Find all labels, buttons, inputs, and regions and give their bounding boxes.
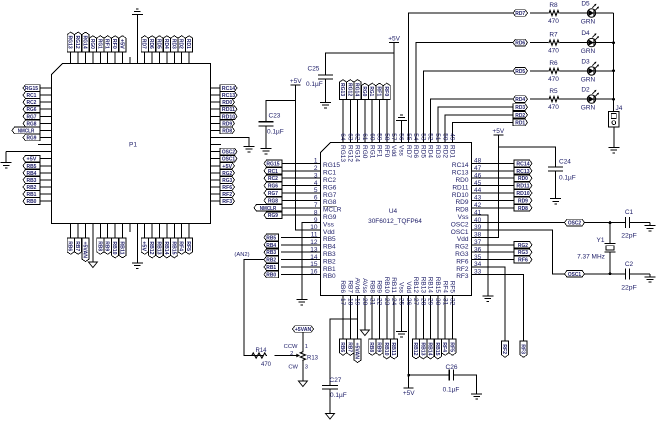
wire P1 bottom pin RF5: [188, 224, 190, 239]
wire P1 right pin +5V: [211, 165, 221, 167]
svg-text:RD11: RD11: [222, 107, 235, 113]
svg-text:RB6: RB6: [67, 241, 73, 251]
svg-text:RG6: RG6: [27, 107, 37, 113]
svg-text:RB14: RB14: [427, 277, 434, 294]
net flag RC2 (U4 left): [264, 175, 282, 182]
svg-text:RF0: RF0: [111, 39, 117, 49]
svg-text:RG12: RG12: [346, 83, 352, 96]
net flag RC2 (P1 left): [23, 99, 40, 106]
svg-text:RG6: RG6: [323, 184, 337, 191]
wire P1 top pin RG12: [77, 52, 79, 64]
svg-text:41: 41: [474, 209, 482, 216]
net flag RB12 (U4 bottom): [412, 339, 420, 359]
wire U4 pin 55 RD7 to LED row: [409, 13, 513, 125]
net flag RD6 (LED row): [513, 39, 528, 46]
svg-text:45: 45: [474, 180, 482, 187]
net flag +5VAN (U4 bottom): [354, 339, 362, 363]
net flag RC1 (U4 left): [264, 168, 282, 175]
resistor R8: [548, 2, 560, 25]
svg-text:RF3: RF3: [456, 273, 469, 280]
resistor R5: [548, 88, 560, 111]
svg-text:RB3: RB3: [27, 178, 37, 184]
wire P1 pin VSS-right to ground: [211, 137, 250, 146]
svg-text:470: 470: [548, 48, 559, 55]
net flag RG14 (P1 top): [82, 32, 90, 52]
pin 60 RG1 of U4: [368, 125, 375, 159]
wire J4 to ground: [613, 127, 615, 145]
wire R13 to analog ground: [302, 361, 304, 381]
net flag RG14 (U4 top): [354, 80, 362, 100]
svg-text:RD7: RD7: [515, 11, 525, 17]
svg-text:CW: CW: [288, 365, 298, 371]
svg-text:64: 64: [339, 133, 346, 141]
net flag +5V (P1 left): [23, 155, 40, 162]
pin 23 RB10 of U4: [383, 277, 390, 312]
ground P1 right: [244, 143, 255, 151]
svg-text:RF4: RF4: [178, 241, 184, 251]
pin 46 RD0 of U4: [455, 172, 488, 184]
wire P1 right pin RD10: [211, 115, 221, 117]
wire U4 pin 30 RB15: [437, 312, 439, 339]
svg-text:RB6: RB6: [339, 280, 346, 293]
pin 57 Vdd of U4: [390, 125, 397, 157]
wire U4 pin 26 Vdd to +5V and C26: [408, 312, 410, 388]
wire U4 pin 27 RB12: [415, 312, 417, 339]
svg-text:RB3: RB3: [323, 251, 336, 258]
wire D5 to J4 bus: [596, 12, 613, 14]
svg-text:RF2: RF2: [456, 266, 469, 273]
svg-text:52: 52: [427, 133, 434, 141]
svg-text:RB10: RB10: [111, 241, 117, 254]
svg-text:+5V: +5V: [222, 164, 232, 170]
wire P1 left pin NMCLR: [40, 129, 52, 131]
svg-text:RF6: RF6: [222, 185, 232, 191]
net flag RB14 (U4 bottom): [427, 339, 435, 359]
pin 20 AVss of U4: [361, 278, 368, 312]
svg-text:RG15: RG15: [266, 161, 279, 167]
svg-text:0.1µF: 0.1µF: [306, 81, 323, 88]
svg-text:RB11: RB11: [119, 241, 125, 254]
svg-text:RD4: RD4: [163, 39, 169, 49]
svg-text:RD6: RD6: [515, 41, 525, 47]
svg-text:RG8: RG8: [268, 198, 278, 204]
net flag RF5 (P1 bottom): [185, 238, 193, 254]
svg-text:RB7: RB7: [346, 342, 352, 352]
wire C2 to ground: [630, 273, 650, 275]
svg-text:AVss: AVss: [361, 278, 368, 293]
svg-text:OSC1: OSC1: [222, 157, 235, 163]
svg-text:RG15: RG15: [323, 162, 340, 169]
net flag RG15 (U4 left): [264, 160, 282, 167]
svg-text:3: 3: [305, 365, 308, 371]
net flag RB13 (U4 bottom): [419, 339, 427, 359]
svg-text:RF1: RF1: [376, 145, 383, 158]
net flag RG8 (P1 left): [23, 120, 40, 127]
svg-text:6: 6: [314, 195, 318, 202]
svg-text:RB1: RB1: [27, 192, 37, 198]
svg-text:D2: D2: [581, 87, 590, 94]
net flag RG3 (P1 right): [220, 177, 235, 184]
wire D2 to J4 bus: [596, 98, 613, 100]
wire P1 bottom pin RB15: [173, 224, 175, 239]
svg-text:RD0: RD0: [518, 176, 528, 182]
wire P1 bottom pin RB10: [114, 224, 116, 239]
svg-text:RG1: RG1: [368, 86, 374, 96]
wire U4 pin 29 RB14: [430, 312, 432, 339]
net flag RF4 (U4 bottom): [441, 339, 449, 355]
svg-text:34: 34: [474, 261, 482, 268]
svg-text:55: 55: [405, 133, 412, 141]
pin 26 Vdd of U4: [405, 281, 412, 312]
pin 4 RG6 of U4: [303, 180, 337, 192]
power +5V (U4 pin26, inverted): [403, 388, 415, 397]
net flag RB8 (P1 bottom): [96, 238, 104, 254]
wire U4 pin 46 to flag: [489, 177, 515, 179]
svg-text:RD10: RD10: [452, 192, 469, 199]
svg-text:+5V: +5V: [290, 78, 302, 85]
wire R8 to D5: [560, 12, 587, 14]
svg-text:20: 20: [361, 298, 368, 306]
capacitor C2 22pF: [625, 268, 629, 279]
svg-text:RD3: RD3: [434, 145, 441, 158]
net flag RG9 (U4 left): [264, 212, 282, 219]
svg-text:0.1µF: 0.1µF: [443, 387, 460, 394]
svg-text:22pF: 22pF: [621, 233, 637, 240]
wire U4 pin 48 to flag: [489, 162, 515, 164]
wire P1 bottom pin RB12: [151, 224, 153, 239]
junction LED bus: [612, 98, 615, 101]
wire U4 pin 42 to flag: [489, 207, 515, 209]
net flag RB11 (U4 bottom): [390, 339, 398, 359]
net flag RB1 (U4 left): [264, 264, 279, 271]
svg-text:5: 5: [314, 187, 318, 194]
net flag +5VAN (R13): [293, 326, 314, 333]
wire U4 pin 22 RB9: [379, 312, 381, 339]
wire +5V rail to C25: [326, 53, 395, 75]
wire U4 pin 2: [282, 170, 303, 172]
net flag RG6 (P1 left): [23, 106, 40, 113]
LED D4 GRN: [581, 30, 599, 55]
svg-text:GRN: GRN: [581, 48, 596, 55]
net flag RB2 (P1 left): [23, 184, 40, 191]
wire U4 pin 17 RB6: [342, 312, 344, 339]
wire U4 pin 44 to flag: [489, 192, 515, 194]
svg-text:RD9: RD9: [455, 199, 468, 206]
wire P1 bottom pin +5V: [144, 224, 146, 239]
wire P1 bottom pin VSS to ground: [136, 224, 138, 261]
net flag RG1 (U4 top): [368, 83, 376, 99]
net flag RB9 (P1 bottom): [104, 238, 112, 254]
net flag RB10 (P1 bottom): [111, 238, 119, 258]
pin 10 Vdd of U4: [303, 224, 335, 236]
net flag RF1 (P1 top): [104, 36, 112, 52]
svg-text:RB2: RB2: [27, 185, 37, 191]
wire U4 pin 35 to flag: [489, 259, 515, 261]
net flag RD2: [513, 112, 528, 119]
svg-text:OSC2: OSC2: [568, 221, 581, 227]
svg-text:RD1: RD1: [185, 39, 191, 49]
svg-text:470: 470: [548, 76, 559, 83]
wire Vdd to C26: [409, 374, 450, 376]
svg-text:22: 22: [376, 298, 383, 306]
net flag RD9 (P1 right): [220, 120, 235, 127]
svg-text:RG3: RG3: [518, 250, 528, 256]
svg-text:36: 36: [474, 246, 482, 253]
svg-text:RF0: RF0: [383, 86, 389, 96]
svg-text:Y1: Y1: [597, 237, 605, 244]
svg-text:0.1µF: 0.1µF: [559, 175, 576, 182]
wire U4 pin 21 RB8: [371, 312, 373, 339]
ground P1 bottom: [132, 260, 143, 268]
pin 59 RF1 of U4: [376, 125, 383, 158]
svg-text:1: 1: [314, 158, 318, 165]
net flag RG15 (P1 left): [23, 85, 40, 92]
wire P1 right pin RC14: [211, 87, 221, 89]
svg-text:D5: D5: [581, 1, 590, 8]
svg-text:29: 29: [427, 298, 434, 306]
net flag RB5 (U4 left): [264, 234, 279, 241]
svg-text:RG1: RG1: [368, 145, 375, 159]
pin 34 RF2 of U4: [456, 261, 488, 273]
svg-text:RB11: RB11: [390, 342, 396, 355]
net flag RB3 (U4 left): [264, 249, 279, 256]
svg-text:OSC1: OSC1: [568, 272, 581, 278]
svg-text:RD6: RD6: [148, 39, 154, 49]
pin 15 RB1 of U4: [303, 261, 336, 273]
net flag RF0 (P1 top): [111, 36, 119, 52]
wire P1 right pin OSC2: [211, 151, 221, 153]
svg-text:RD6: RD6: [412, 145, 419, 158]
svg-text:56: 56: [398, 133, 405, 141]
wire P1 left pin RB4: [40, 172, 52, 174]
pin 42 RD8 of U4: [455, 202, 488, 214]
svg-text:+5V: +5V: [141, 241, 147, 251]
svg-text:RF3: RF3: [520, 344, 526, 354]
pin 27 RB12 of U4: [412, 277, 419, 312]
net flag NMCLR (U4 left): [254, 205, 282, 212]
svg-text:10: 10: [310, 224, 318, 231]
wire U4 pin 1: [282, 162, 303, 164]
svg-text:RG15: RG15: [25, 86, 38, 92]
svg-text:RB1: RB1: [266, 265, 276, 271]
junction LED bus: [612, 41, 615, 44]
wire C1 to ground: [630, 222, 650, 224]
svg-text:15: 15: [310, 261, 318, 268]
net flag RC13 (U4 right): [514, 168, 532, 175]
wire P1 right pin RG3: [211, 179, 221, 181]
net flag RB15 (P1 bottom): [170, 238, 178, 258]
svg-text:51: 51: [434, 133, 441, 141]
net flag RF6 (U4 right): [514, 256, 532, 263]
pin 56 Vss of U4: [398, 125, 405, 157]
wire U4 pin 47 to flag: [489, 170, 515, 172]
svg-text:RG13: RG13: [339, 83, 345, 96]
svg-text:+5VAN: +5VAN: [295, 327, 312, 333]
svg-text:RD0: RD0: [455, 177, 468, 184]
net flag RD0 (U4 right): [514, 175, 532, 182]
svg-text:0.1µF: 0.1µF: [267, 128, 284, 135]
net flag RF3 (P1 right): [220, 198, 235, 205]
pin 41 Vss of U4: [458, 209, 489, 221]
power +5V (U4 pin57): [388, 35, 400, 42]
wire P1 top pin RF1: [107, 52, 109, 64]
svg-text:RG3: RG3: [222, 178, 232, 184]
pin 21 RB8 of U4: [368, 280, 375, 312]
svg-text:27: 27: [412, 298, 419, 306]
wire P1 right pin RD11: [211, 108, 221, 110]
svg-text:RB10: RB10: [383, 342, 389, 355]
wire P1 left pin RB0: [40, 200, 52, 202]
svg-text:P1: P1: [129, 142, 137, 149]
svg-text:7: 7: [314, 202, 318, 209]
pin 51 RD3 of U4: [434, 125, 441, 158]
net flag +5V (P1 bottom): [141, 238, 149, 254]
net flag RG8 (U4 left): [264, 197, 282, 204]
wire P1 bottom pin RB7: [77, 224, 79, 239]
net flag RB3 (P1 left): [23, 177, 40, 184]
wire U4 pin 19 AVdd to +5VAN: [357, 312, 359, 339]
pin 28 RB13 of U4: [419, 277, 426, 312]
net flag RD5 (P1 top): [156, 36, 164, 52]
svg-text:C23: C23: [269, 113, 281, 120]
svg-text:RG12: RG12: [346, 145, 353, 162]
svg-text:RB15: RB15: [170, 241, 176, 254]
wire C27 to analog ground: [329, 389, 331, 413]
ground J4: [608, 145, 619, 153]
net flag RD7 (LED row): [513, 10, 528, 17]
wire P1 left unconnected stub: [38, 144, 52, 146]
svg-text:R8: R8: [549, 2, 558, 9]
junction Vdd/C26: [407, 374, 410, 377]
pin 8 RG9 of U4: [303, 209, 337, 221]
svg-text:RD8: RD8: [518, 206, 528, 212]
LED D2 GRN: [581, 87, 599, 112]
pin 64 RG13 of U4: [339, 125, 346, 162]
svg-text:RB0: RB0: [266, 272, 276, 278]
net flag RG12 (P1 top): [74, 32, 82, 52]
wire P1 left pin +5V: [40, 158, 52, 160]
svg-text:RF6: RF6: [456, 258, 469, 265]
svg-text:RG2: RG2: [222, 171, 232, 177]
ground C23: [261, 145, 272, 153]
wire C24 to ground: [555, 171, 557, 196]
wire R6 to D3: [560, 70, 587, 72]
svg-text:NMCLR: NMCLR: [260, 206, 277, 212]
wire U4 pin 56 Vss to ground: [400, 123, 402, 125]
svg-text:GRN: GRN: [581, 19, 596, 26]
svg-text:28: 28: [419, 298, 426, 306]
svg-text:(AN2): (AN2): [234, 252, 249, 258]
net flag RC14 (P1 right): [220, 85, 237, 92]
wire P1 left pin RB1: [40, 193, 52, 195]
svg-text:24: 24: [390, 298, 397, 306]
svg-text:U4: U4: [389, 208, 398, 215]
svg-text:60: 60: [368, 133, 375, 141]
svg-text:RG0: RG0: [361, 86, 367, 96]
svg-text:43: 43: [474, 195, 482, 202]
svg-text:RC2: RC2: [323, 177, 336, 184]
wire P1 top pin RD2: [181, 52, 183, 64]
wire P1 pin VSS-left to ground: [6, 151, 51, 153]
svg-text:Vss: Vss: [398, 145, 405, 157]
net flag RD11 (P1 right): [220, 106, 237, 113]
svg-text:32: 32: [449, 298, 456, 306]
svg-text:RF3: RF3: [222, 199, 232, 205]
pin 31 RF4 of U4: [441, 281, 448, 312]
wire U4 pin 52 RD4 to LED row: [431, 99, 513, 125]
svg-text:C26: C26: [446, 364, 458, 371]
svg-text:49: 49: [449, 133, 456, 141]
net flag OSC2 (P1 right): [220, 148, 237, 155]
net flag RG6 (U4 left): [264, 182, 282, 189]
wire U4 pin 7: [282, 207, 303, 209]
wire P1 bottom pin RB14: [166, 224, 168, 239]
svg-text:RF0: RF0: [383, 145, 390, 158]
pin 35 RF6 of U4: [456, 254, 488, 266]
capacitor C27: [322, 386, 338, 390]
svg-text:RF4: RF4: [441, 281, 448, 294]
wire RD5 flag to R6: [530, 70, 548, 72]
wire U4 pin 15: [281, 266, 303, 268]
wire P1 right pin RF6: [211, 186, 221, 188]
svg-text:RB0: RB0: [27, 199, 37, 205]
svg-text:GRN: GRN: [581, 105, 596, 112]
wire U4 pin 63 RG12: [349, 100, 351, 126]
svg-text:12: 12: [310, 239, 318, 246]
svg-text:RG9: RG9: [323, 214, 337, 221]
svg-text:RB5: RB5: [27, 164, 37, 170]
svg-text:46: 46: [474, 172, 482, 179]
pin 19 AVdd of U4: [354, 278, 361, 312]
svg-text:MCLR: MCLR: [323, 207, 342, 214]
wire P1 right pin RG2: [211, 172, 221, 174]
svg-text:+5V: +5V: [403, 390, 415, 397]
svg-text:RB2: RB2: [323, 258, 336, 265]
svg-text:+5V: +5V: [119, 39, 125, 49]
svg-text:RB5: RB5: [323, 236, 336, 243]
wire P1 left pin RC1: [40, 94, 52, 96]
pin 18 RB7 of U4: [346, 280, 353, 312]
net flag RD8 (P1 right): [220, 127, 235, 134]
svg-text:RG3: RG3: [455, 251, 469, 258]
net flag RC1 (P1 left): [23, 92, 40, 99]
svg-text:3: 3: [314, 172, 318, 179]
net flag RG3 (U4 right): [514, 249, 532, 256]
svg-text:RB13: RB13: [156, 241, 162, 254]
svg-text:2: 2: [290, 351, 293, 357]
wire P1 top pin RF0: [114, 52, 116, 64]
svg-text:35: 35: [474, 254, 482, 261]
wire U4 pin 25 Vss to ground: [400, 312, 402, 329]
wire C25 to ground: [325, 79, 327, 99]
svg-text:D4: D4: [581, 30, 590, 37]
svg-text:+5V: +5V: [27, 157, 37, 163]
svg-text:40: 40: [474, 217, 482, 224]
svg-text:RB15: RB15: [434, 277, 441, 294]
wire U4 pin 24 RB11: [393, 312, 395, 339]
wire R5 to D2: [560, 98, 587, 100]
svg-text:J4: J4: [616, 105, 623, 112]
svg-text:RD4: RD4: [515, 97, 525, 103]
ground U4 pin 41: [482, 293, 493, 301]
wire P1 right pin RF3: [211, 200, 221, 202]
svg-text:RB13: RB13: [419, 277, 426, 294]
wire OSC1 to C2 and Y1: [585, 273, 626, 275]
svg-text:NMCLR: NMCLR: [18, 128, 35, 134]
wire AVdd to C27: [330, 319, 358, 386]
svg-text:RB11: RB11: [390, 277, 397, 293]
svg-text:RD8: RD8: [222, 128, 232, 134]
